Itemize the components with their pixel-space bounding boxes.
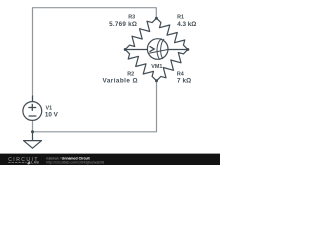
svg-text:R1: R1 [177,15,184,21]
voltmeter VM1 body [147,39,168,60]
footer bar [0,154,220,165]
wire V1 bottom stub [32,121,34,132]
svg-text:R4: R4 [177,71,184,77]
V1 minus sign [29,115,36,117]
resistor R3 [125,18,156,49]
node right [186,48,189,51]
footer logo bolt [27,161,30,165]
svg-text:LAB: LAB [31,160,39,164]
node top [155,17,158,20]
voltmeter > glyph [150,47,154,52]
svg-text:Variable Ω: Variable Ω [103,77,138,84]
wire top loop [33,8,157,102]
node left [124,48,127,51]
voltmeter VM1 right lead [168,49,188,51]
voltage source V1 top lead [32,96,34,102]
svg-text:7 kΩ: 7 kΩ [177,77,191,84]
svg-text:R3: R3 [128,15,135,21]
ground [32,132,34,141]
footer logo rule [8,161,26,163]
svg-text:10 V: 10 V [45,111,59,118]
node bottom [155,79,158,82]
resistor R4 [157,50,188,81]
voltmeter dial arc right [161,39,164,58]
resistor R1 [157,18,188,49]
resistor R2 [125,50,156,81]
voltage source V1 body [23,102,42,121]
voltmeter needle [149,50,168,54]
svg-text:5.769 kΩ: 5.769 kΩ [109,21,137,28]
wire bottom loop [33,81,157,132]
svg-text:4.3 kΩ: 4.3 kΩ [177,21,196,28]
svg-text:VM1: VM1 [151,64,162,70]
svg-text:http://circuitlab.com/c/643j8u: http://circuitlab.com/c/643j8uzwab98 [46,161,104,165]
voltmeter VM1 left lead [125,49,148,51]
V1 plus sign [29,107,36,109]
voltmeter dial arc left [157,39,161,59]
node ground junction [31,130,34,133]
